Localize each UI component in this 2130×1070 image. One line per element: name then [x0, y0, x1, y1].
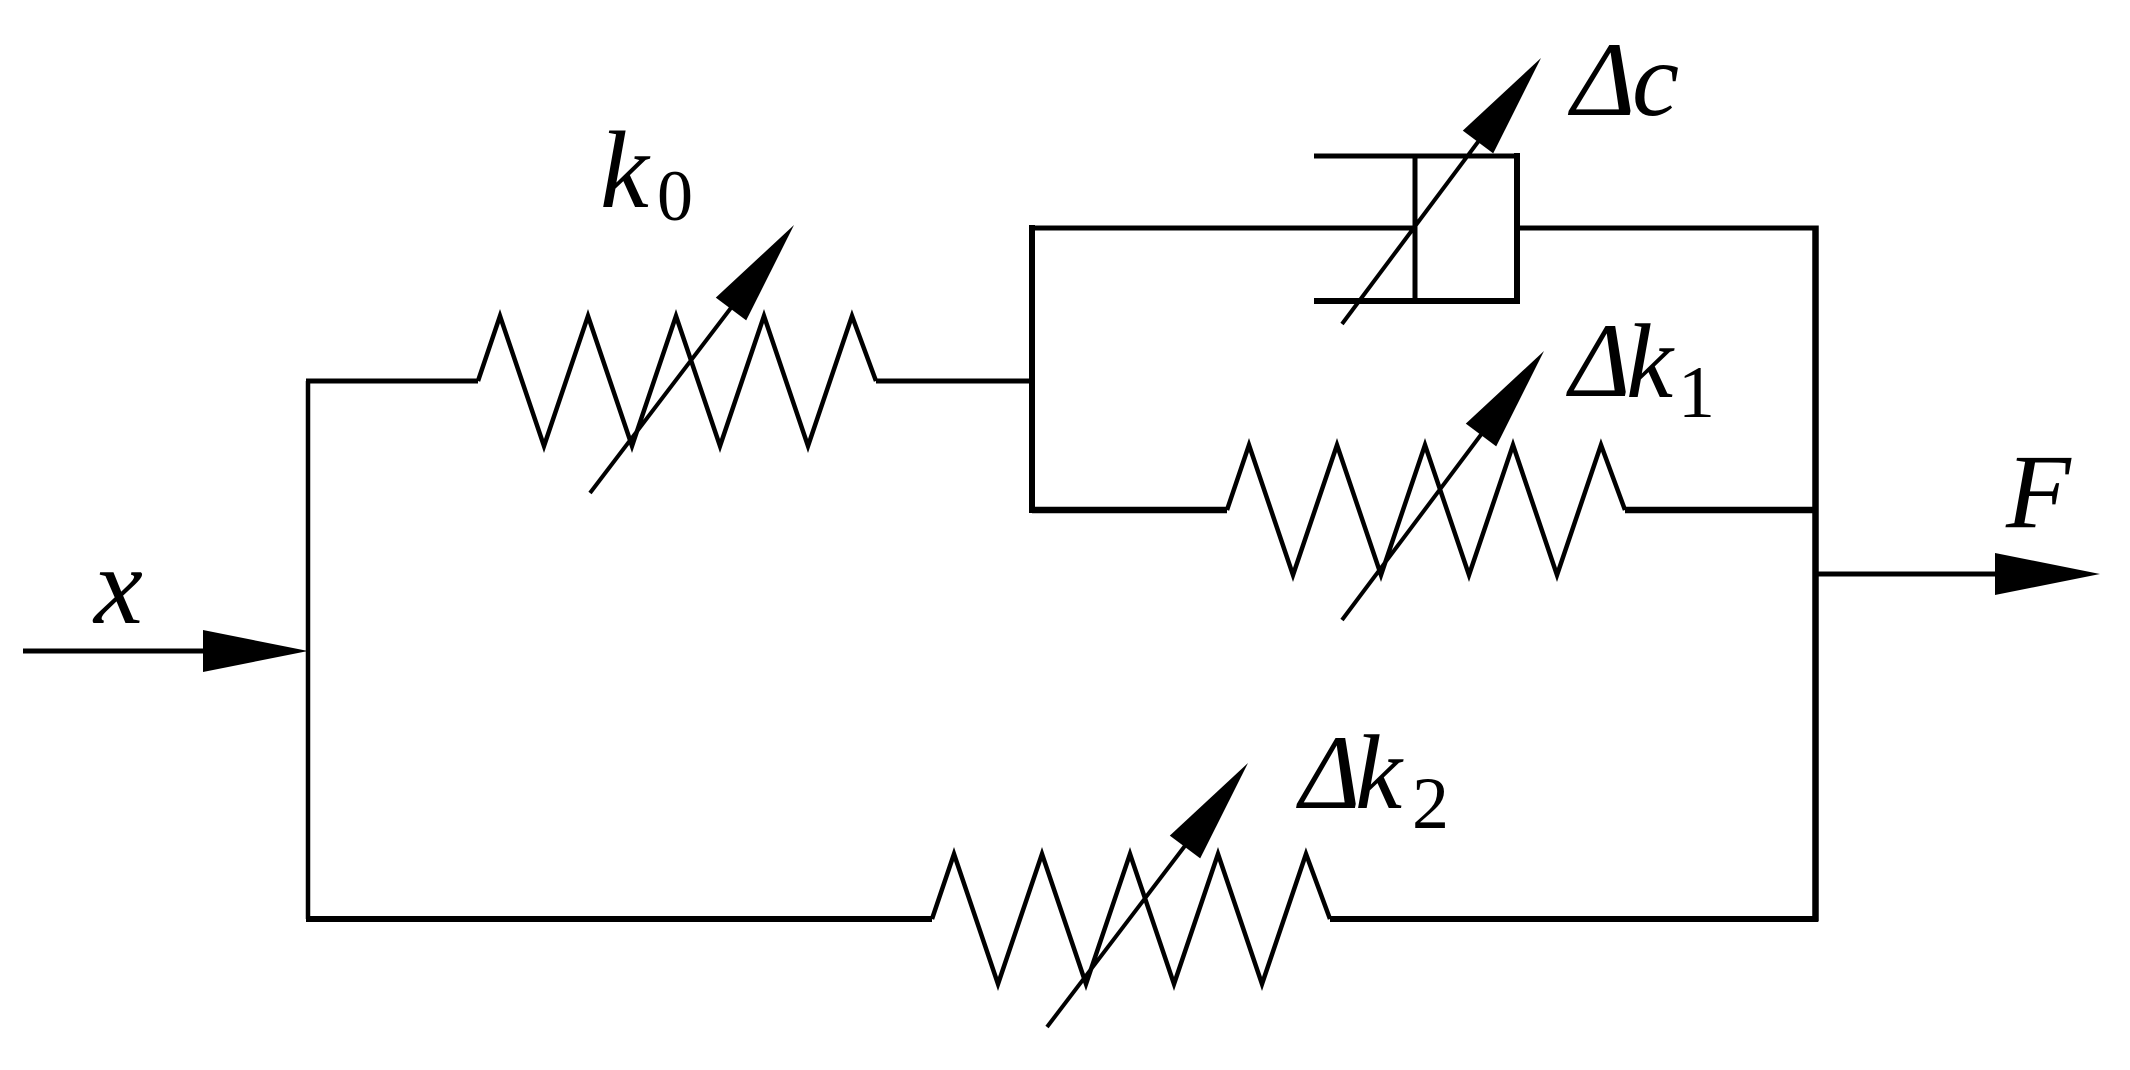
- svg-text:1: 1: [1678, 352, 1715, 434]
- svg-text:0: 0: [657, 156, 693, 236]
- svg-text:Δ: Δ: [1296, 714, 1361, 831]
- svg-text:k: k: [1626, 303, 1675, 420]
- svg-text:x: x: [92, 525, 143, 647]
- svg-text:Δ: Δ: [1566, 302, 1631, 419]
- svg-text:F: F: [2005, 433, 2072, 550]
- svg-text:2: 2: [1412, 763, 1449, 845]
- svg-text:Δ: Δ: [1567, 21, 1635, 138]
- svg-text:k: k: [600, 109, 651, 231]
- svg-text:c: c: [1632, 21, 1679, 138]
- svg-text:k: k: [1355, 714, 1404, 831]
